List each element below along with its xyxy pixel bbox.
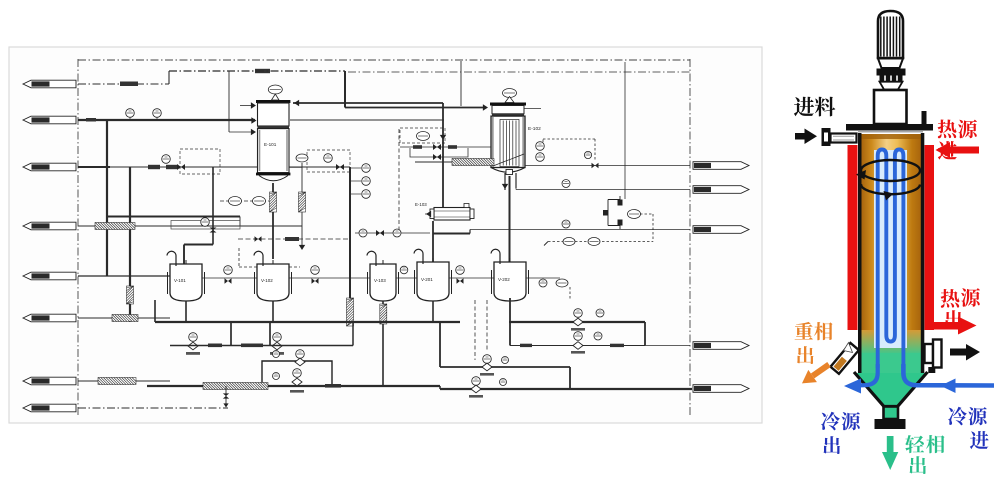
vessel V-101 <box>170 264 202 301</box>
interior transition zone <box>862 330 922 355</box>
label 冷源进 (cold in) <box>948 407 967 426</box>
dashed line y=241.5 with transmitters <box>544 238 653 246</box>
inner wall left <box>858 133 862 376</box>
inner wall right <box>921 133 925 376</box>
svg-text:V-102: V-102 <box>261 278 273 283</box>
bypass station right <box>603 196 653 242</box>
cooling coil backdrop <box>874 150 907 348</box>
cooling coil serpentine <box>878 150 904 369</box>
exchanger E-103 <box>415 202 474 220</box>
line labels on y=167 <box>148 165 160 169</box>
inter-vessel valves 5 <box>526 278 570 300</box>
instruments right of E-102 <box>536 142 545 162</box>
left boundary flag 1 <box>23 80 76 88</box>
inter-vessel valves 2 <box>289 266 370 284</box>
motor cylinder <box>878 11 903 58</box>
wire: line y=167 with valve stations <box>78 166 350 168</box>
heavy phase arrow (orange) <box>798 358 834 389</box>
wire: long bottom line y=386 <box>147 384 692 389</box>
wire: vertical x=625 <box>624 62 626 199</box>
wire: line y=276 to V-101 <box>78 275 170 277</box>
feed arrow (black) <box>795 129 817 145</box>
left boundary flag 6 <box>23 314 76 322</box>
instrument FI on y=120 <box>126 109 135 120</box>
wire: return line y=103 into E-101 <box>293 100 446 140</box>
small trapezoid <box>880 82 903 90</box>
pump P-201B <box>571 332 602 354</box>
heating jacket left (red) <box>848 145 858 330</box>
wire: dashed line y=239 <box>238 236 350 242</box>
spec break on bottom line <box>203 383 268 390</box>
wire: into E-102 shell y=147 <box>460 146 491 148</box>
hot oil out arrow (red) <box>930 317 977 335</box>
label 重相出 (heavy phase out) <box>795 322 813 340</box>
interior light phase zone <box>862 353 922 374</box>
instrument on line y=189.5 <box>562 180 570 188</box>
valves under E-101 left <box>220 197 269 206</box>
inter-vessel valves 1 <box>202 266 257 284</box>
vessel V-202 <box>494 262 526 301</box>
svg-text:E-101: E-101 <box>264 142 277 147</box>
wire: vertical x=107 <box>106 120 108 276</box>
relief valve on E-101 <box>268 85 282 100</box>
conical bottom <box>854 373 928 407</box>
right boundary flag 1 <box>693 162 749 170</box>
right boundary flag 3 <box>693 226 749 234</box>
wire: traced line into E-102 bottom <box>415 159 494 166</box>
left boundary flag 5 <box>23 272 76 280</box>
dashed instrument line x=399 <box>398 129 400 233</box>
hot oil in arrow (red) <box>936 142 980 158</box>
left boundary flag 3 <box>23 163 76 171</box>
svg-text:V-103: V-103 <box>374 278 386 283</box>
coupling black band <box>877 69 906 76</box>
pump P-102B loop <box>262 350 332 384</box>
pump P-103 <box>273 369 305 393</box>
wire: vertical x=130 with spec break <box>127 167 134 322</box>
wire: thick line y=216.5 <box>107 217 240 227</box>
P&ID drawing sheet <box>9 47 762 423</box>
line label on y=71 <box>255 69 270 73</box>
wire: line y=318 with spec break <box>78 315 170 322</box>
outlet neck <box>884 407 899 420</box>
svg-text:E-103: E-103 <box>415 202 427 207</box>
interior top dark band <box>862 134 922 139</box>
wire: line y=229.5 to right flag <box>433 230 690 234</box>
wire: line y=189.5 to right flag <box>516 188 690 190</box>
heating jacket right (red) <box>925 145 935 330</box>
wire: line y=381 with spec break <box>78 378 170 385</box>
dashed signal to control valve <box>543 139 599 168</box>
pump P-202B <box>469 377 507 398</box>
right boundary flag 5 <box>693 385 749 393</box>
label 进料 (feed) <box>794 97 814 117</box>
instruments on y=233 <box>355 229 430 237</box>
pump P-102 <box>270 333 284 355</box>
wire: bottoms header y=322 <box>155 300 645 386</box>
wire: feed down into E-103 <box>425 138 443 217</box>
wire: line y=226 with spec break <box>78 223 302 230</box>
heavy phase glint <box>844 343 853 353</box>
wire: traced line y=71 to E-101/E-102 <box>169 71 345 108</box>
vessel V-103 <box>370 264 396 301</box>
wire: bottom dash-dot y=408 <box>78 407 228 409</box>
left boundary flag 2 <box>23 116 76 124</box>
wire: x=350 drop to V-103 <box>347 167 354 326</box>
instrument stack x=366 <box>350 164 370 199</box>
inter-vessel valves 3 <box>396 266 417 278</box>
vessel V-201 <box>417 262 449 301</box>
bottom blue pipe <box>844 364 994 394</box>
wire: branch to E-101 nozzles <box>229 71 256 135</box>
vessel V-102 <box>257 264 289 301</box>
wire: drop x=213 to V-101 <box>184 167 217 264</box>
pump P-101 <box>186 333 200 355</box>
label frame y=221 <box>171 221 240 230</box>
heavy phase angled nozzle <box>831 343 859 374</box>
right boundary flag 2 <box>693 186 749 194</box>
label 冷源出 (cold out) <box>821 412 840 431</box>
outlet flange <box>875 419 906 429</box>
wire: pump discharge y=345 <box>170 322 353 347</box>
left boundary flag 8 <box>23 404 76 412</box>
svg-text:V-101: V-101 <box>174 278 186 283</box>
left boundary flag 4 <box>23 222 76 230</box>
valve station box B <box>307 150 350 172</box>
wire: E-102 top right stub <box>524 108 541 110</box>
right stub above flange <box>922 111 927 124</box>
top dash-dot right segment <box>348 71 690 73</box>
wire: stream line y=84 <box>78 71 169 86</box>
dashed level lines V-201/V-202 <box>475 300 487 360</box>
drain valve to y=408 <box>223 386 229 408</box>
product arrow (black) <box>950 344 980 361</box>
wire: E-101 side line to x=302 <box>289 154 308 250</box>
svg-text:V-202: V-202 <box>498 277 510 282</box>
column E-101 <box>256 100 290 181</box>
svg-text:V-201: V-201 <box>421 277 433 282</box>
instrument on line y=229.5 <box>562 220 570 228</box>
motor adapter trapezoid <box>878 59 903 69</box>
wire: line y=165.5 to right flag <box>525 165 690 167</box>
label 轻相出 (light phase out) <box>905 435 924 453</box>
feed nozzle flange <box>822 128 831 146</box>
label 热源出 (hot out) <box>941 289 960 308</box>
left boundary flag 7 <box>23 377 76 385</box>
stirring vortex ellipse <box>856 160 920 201</box>
pump P-201A <box>571 309 604 331</box>
wire: main feed header y=120 <box>78 117 444 123</box>
right boundary flag 4 <box>693 342 749 350</box>
wire: V-202 bottoms to y=345 <box>510 298 690 347</box>
control valve station before E-103 <box>400 128 468 160</box>
light phase arrow (green) <box>882 436 898 470</box>
label 热源进 (hot in) <box>938 120 957 139</box>
vessel top rim <box>858 131 923 133</box>
top flange bar <box>846 124 933 131</box>
vessel interior (hot oil zone) <box>862 134 922 342</box>
svg-text:E-102: E-102 <box>528 126 541 132</box>
coupling striped band <box>880 76 903 82</box>
wire: feed line y=107.5 into E-102 <box>345 61 488 111</box>
wire: E-102 bottom nozzles <box>502 173 516 262</box>
dashed instrument corner <box>239 248 300 267</box>
valve station box A <box>162 149 220 174</box>
relief valve on E-102 <box>503 89 517 103</box>
wire: E-101 bottom outlet to V-102 <box>270 183 277 259</box>
pump P-202A loop <box>440 322 570 389</box>
feed nozzle pipe <box>831 134 857 143</box>
exchanger E-102 <box>490 103 526 175</box>
inter-vessel valves 4 <box>449 266 494 284</box>
wire: suction drops <box>231 322 270 345</box>
battery limit border (dash-dot frame) <box>78 59 690 416</box>
right mid nozzle <box>925 340 942 368</box>
drive stand <box>874 90 907 124</box>
wire: E-103 to V-201 <box>432 221 434 262</box>
instrument TI on y=120 <box>153 109 162 120</box>
